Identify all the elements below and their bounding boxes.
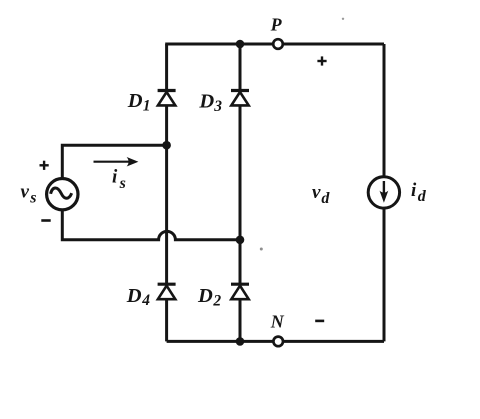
svg-text:i: i — [411, 180, 417, 201]
svg-text:v: v — [312, 182, 321, 203]
svg-text:d: d — [418, 188, 427, 205]
label D3 — [198, 90, 222, 115]
svg-text:3: 3 — [213, 98, 222, 115]
svg-text:v: v — [21, 181, 30, 202]
label D2 — [197, 285, 221, 309]
label is — [112, 167, 126, 193]
svg-text:d: d — [321, 190, 330, 207]
svg-text:N: N — [270, 312, 285, 332]
svg-text:D: D — [198, 90, 214, 112]
source vs — [47, 179, 78, 210]
svg-text:D: D — [127, 90, 143, 112]
minus sign at source — [41, 219, 50, 222]
diode D3 — [231, 91, 249, 106]
junction dot top (D3 leg / top rail) — [236, 40, 245, 49]
diode D1 — [158, 91, 176, 106]
minus sign at load bottom — [315, 320, 324, 323]
label vd — [312, 182, 330, 207]
label D1 — [127, 90, 151, 114]
junction dot source- (middle branch) — [236, 236, 245, 245]
svg-text:D: D — [197, 285, 213, 307]
label id — [411, 180, 427, 205]
svg-text:D: D — [126, 285, 142, 307]
svg-text:1: 1 — [143, 98, 151, 115]
speck middle — [260, 248, 263, 251]
junction dot source+ (left branch) — [162, 141, 171, 150]
wire left branch (D1/D4 leg) — [165, 44, 168, 341]
plus sign at source — [40, 161, 49, 170]
diode D4 — [158, 284, 176, 299]
svg-text:s: s — [29, 190, 36, 207]
svg-text:2: 2 — [212, 292, 221, 309]
node N terminal — [273, 337, 283, 347]
arrow is — [94, 157, 139, 167]
svg-text:i: i — [112, 167, 118, 188]
node P terminal — [273, 39, 283, 49]
svg-text:s: s — [119, 175, 126, 192]
wire top rail P — [165, 43, 384, 46]
speck top — [342, 18, 344, 20]
wire right branch (load leg) — [383, 44, 386, 341]
wire source top lead — [62, 145, 166, 178]
wire middle branch (D3/D2 leg) — [239, 44, 242, 341]
junction dot bottom (D2 leg / bottom rail) — [236, 337, 245, 346]
current source id — [368, 177, 399, 208]
wire source bottom lead with hop over left branch — [62, 210, 240, 240]
svg-text:P: P — [270, 15, 283, 35]
label D4 — [126, 285, 150, 309]
wire bottom rail N — [167, 340, 384, 343]
plus sign at load top — [317, 56, 326, 65]
label vs — [21, 181, 37, 206]
svg-text:4: 4 — [141, 292, 150, 309]
diode D2 — [231, 284, 249, 299]
